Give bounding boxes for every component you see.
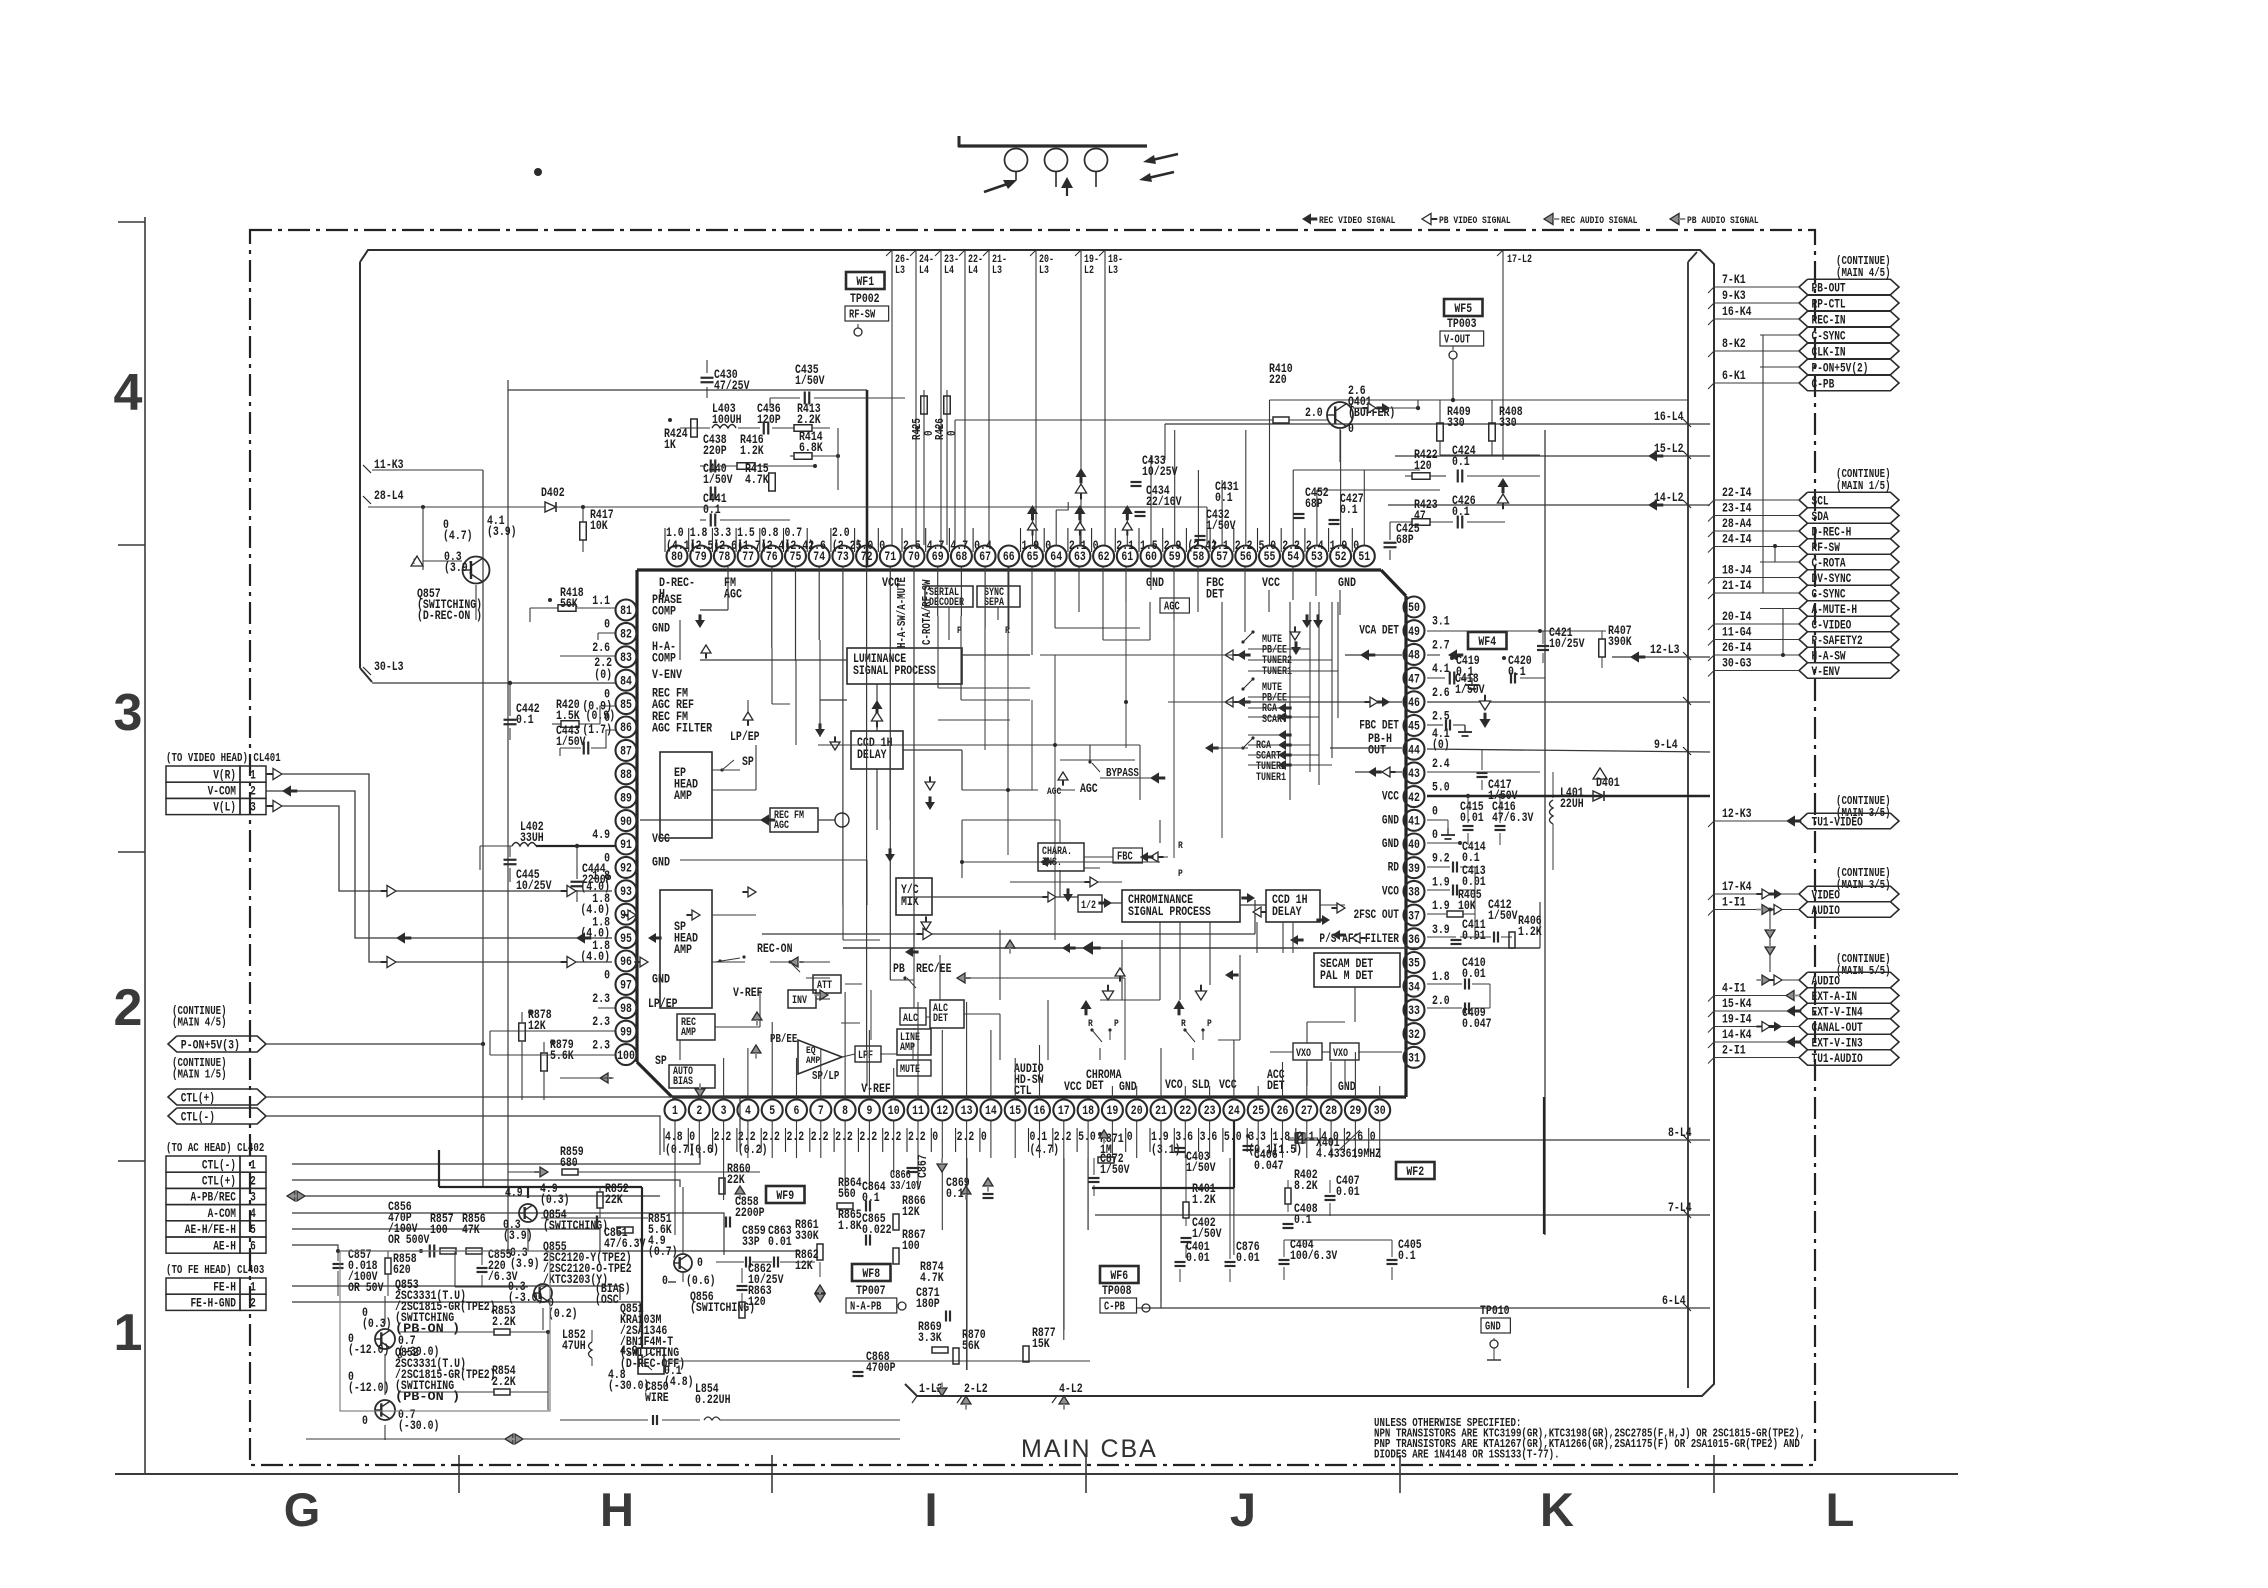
- svg-text:0.1: 0.1: [1398, 1248, 1416, 1263]
- svg-text:46: 46: [1408, 695, 1420, 710]
- svg-text:DELAY: DELAY: [857, 747, 887, 762]
- svg-text:EXT-V-IN4: EXT-V-IN4: [1812, 1005, 1864, 1019]
- svg-text:47/6.3V: 47/6.3V: [1492, 810, 1534, 825]
- svg-text:2.2: 2.2: [714, 1129, 732, 1144]
- svg-text:A-PB/REC: A-PB/REC: [191, 1191, 237, 1205]
- svg-text:0: 0: [932, 1129, 938, 1144]
- svg-text:4-L2: 4-L2: [1059, 1381, 1083, 1396]
- svg-text:SEPA: SEPA: [984, 597, 1004, 609]
- svg-text:68P: 68P: [1396, 532, 1414, 547]
- svg-text:5.0: 5.0: [1078, 1129, 1096, 1144]
- svg-text:48: 48: [1408, 648, 1420, 663]
- svg-text:7-L4: 7-L4: [1668, 1200, 1692, 1215]
- svg-text:2.2: 2.2: [1235, 538, 1253, 553]
- svg-text:(MAIN 3/5): (MAIN 3/5): [1836, 878, 1891, 892]
- svg-text:DV-SYNC: DV-SYNC: [1812, 572, 1852, 586]
- svg-text:66: 66: [1003, 549, 1015, 564]
- svg-text:DET: DET: [1086, 1078, 1104, 1093]
- svg-text:GND: GND: [652, 620, 670, 635]
- svg-text:ATT: ATT: [817, 980, 832, 992]
- svg-text:0.01: 0.01: [1460, 810, 1484, 825]
- svg-text:AGC: AGC: [774, 820, 789, 832]
- svg-text:26-I4: 26-I4: [1722, 640, 1752, 655]
- svg-text:4: 4: [114, 364, 143, 422]
- svg-text:1: 1: [250, 1280, 256, 1294]
- svg-text:42: 42: [1408, 790, 1420, 805]
- svg-text:TU1-VIDEO: TU1-VIDEO: [1812, 815, 1864, 829]
- svg-text:P: P: [1178, 868, 1183, 880]
- svg-text:2.5: 2.5: [903, 538, 921, 553]
- svg-text:L4: L4: [968, 265, 978, 277]
- svg-text:1.1: 1.1: [592, 593, 610, 608]
- svg-text:93: 93: [620, 884, 632, 899]
- svg-text:1: 1: [250, 1158, 256, 1172]
- svg-text:(0.2): (0.2): [548, 1306, 578, 1321]
- svg-text:36: 36: [1408, 932, 1420, 947]
- svg-text:22: 22: [1179, 1103, 1191, 1118]
- svg-text:7: 7: [818, 1103, 824, 1118]
- svg-text:PB-OUT: PB-OUT: [1812, 281, 1846, 295]
- svg-text:1: 1: [672, 1103, 678, 1118]
- svg-text:2.9: 2.9: [1164, 538, 1182, 553]
- svg-text:4.433619MHZ: 4.433619MHZ: [1316, 1146, 1381, 1161]
- svg-text:27: 27: [1301, 1103, 1313, 1118]
- svg-text:DELAY: DELAY: [1272, 904, 1302, 919]
- svg-text:2-L2: 2-L2: [964, 1381, 988, 1396]
- svg-text:22/16V: 22/16V: [1146, 494, 1182, 509]
- svg-text:2.3: 2.3: [592, 1014, 610, 1029]
- svg-text:GND: GND: [652, 854, 670, 869]
- svg-text:3.9: 3.9: [1432, 922, 1450, 937]
- svg-text:9: 9: [866, 1103, 872, 1118]
- svg-text:1/50V: 1/50V: [1488, 908, 1518, 923]
- svg-text:0.01: 0.01: [1186, 1250, 1210, 1265]
- svg-text:DET: DET: [1206, 587, 1224, 602]
- svg-text:0.1: 0.1: [1340, 502, 1358, 517]
- svg-text:120: 120: [1414, 458, 1432, 473]
- svg-text:REC/EE: REC/EE: [916, 961, 952, 976]
- svg-text:(MAIN 4/5): (MAIN 4/5): [1836, 266, 1891, 280]
- svg-text:43: 43: [1408, 766, 1420, 781]
- svg-text:0: 0: [879, 538, 885, 553]
- svg-text:1.2K: 1.2K: [1518, 924, 1542, 939]
- svg-text:R: R: [1181, 1018, 1186, 1030]
- svg-text:2200P: 2200P: [735, 1205, 765, 1220]
- svg-text:2.1: 2.1: [1069, 538, 1087, 553]
- svg-text:G: G: [284, 1483, 321, 1536]
- svg-text:5: 5: [250, 1223, 256, 1237]
- svg-text:0: 0: [1432, 827, 1438, 842]
- svg-text:3.6: 3.6: [1200, 1129, 1218, 1144]
- svg-text:33: 33: [1408, 1003, 1420, 1018]
- svg-text:47K: 47K: [462, 1222, 480, 1237]
- svg-text:1/50V: 1/50V: [1206, 518, 1236, 533]
- svg-text:99: 99: [620, 1024, 632, 1039]
- svg-text:47UH: 47UH: [562, 1338, 586, 1353]
- svg-text:I: I: [924, 1483, 937, 1536]
- svg-text:2200P: 2200P: [582, 872, 612, 887]
- svg-text:9-K3: 9-K3: [1722, 288, 1746, 303]
- svg-text:330: 330: [1447, 415, 1465, 430]
- svg-text:4.9: 4.9: [592, 827, 610, 842]
- svg-text:TP010: TP010: [1480, 1303, 1510, 1318]
- svg-text:2.2: 2.2: [1054, 1129, 1072, 1144]
- svg-text:24-I4: 24-I4: [1722, 532, 1752, 547]
- svg-text:(-12.0): (-12.0): [348, 1380, 389, 1395]
- svg-text:1/50V: 1/50V: [556, 734, 586, 749]
- svg-text:0: 0: [1348, 421, 1354, 436]
- svg-text:2.2: 2.2: [811, 1129, 829, 1144]
- svg-text:6: 6: [250, 1239, 256, 1253]
- svg-text:28: 28: [1325, 1103, 1337, 1118]
- svg-text:10/25V: 10/25V: [1142, 464, 1178, 479]
- svg-text:VCC: VCC: [1382, 790, 1399, 804]
- svg-text:22-I4: 22-I4: [1722, 485, 1752, 500]
- svg-text:(-30.0): (-30.0): [608, 1378, 649, 1393]
- svg-text:AMP: AMP: [674, 942, 692, 957]
- svg-text:2.6: 2.6: [808, 538, 826, 553]
- svg-text:15: 15: [1009, 1103, 1021, 1118]
- svg-text:0: 0: [604, 967, 610, 982]
- svg-text:100/6.3V: 100/6.3V: [1290, 1248, 1337, 1263]
- svg-text:MAIN CBA: MAIN CBA: [1021, 1435, 1158, 1463]
- svg-text:0: 0: [1353, 538, 1359, 553]
- svg-text:VCC: VCC: [1064, 1079, 1082, 1094]
- svg-text:1K: 1K: [664, 437, 676, 452]
- svg-text:0.01: 0.01: [1336, 1184, 1360, 1199]
- svg-text:AGC: AGC: [1164, 601, 1180, 614]
- svg-text:0.1: 0.1: [516, 712, 534, 727]
- svg-text:3.3K: 3.3K: [918, 1330, 942, 1345]
- svg-text:2.2: 2.2: [957, 1129, 975, 1144]
- svg-text:16: 16: [1034, 1103, 1046, 1118]
- svg-text:(OSC: (OSC: [595, 1292, 619, 1307]
- svg-text:LPF: LPF: [858, 1050, 873, 1062]
- svg-text:FE-H-GND: FE-H-GND: [191, 1297, 237, 1311]
- svg-text:SP/LP: SP/LP: [812, 1069, 839, 1083]
- svg-text:0.1: 0.1: [1215, 490, 1233, 505]
- svg-text:D-REC-H: D-REC-H: [1812, 525, 1852, 539]
- svg-text:(4.7): (4.7): [1030, 1142, 1060, 1157]
- svg-text:15-L2: 15-L2: [1654, 441, 1684, 456]
- svg-text:18-J4: 18-J4: [1722, 563, 1752, 578]
- svg-text:CLK-IN: CLK-IN: [1812, 345, 1846, 359]
- svg-text:120: 120: [748, 1294, 766, 1309]
- svg-text:P-ON+5V(2): P-ON+5V(2): [1812, 361, 1869, 375]
- svg-text:(SWITCHING): (SWITCHING): [543, 1218, 608, 1233]
- svg-text:AMP: AMP: [674, 788, 692, 803]
- svg-text:VIDEO: VIDEO: [1812, 888, 1841, 902]
- svg-text:17: 17: [1058, 1103, 1070, 1118]
- svg-text:(0): (0): [594, 667, 612, 682]
- svg-text:V-ENV: V-ENV: [652, 667, 682, 682]
- svg-text:OUT: OUT: [1368, 743, 1386, 758]
- svg-text:97: 97: [620, 978, 632, 993]
- svg-text:7-K1: 7-K1: [1722, 272, 1746, 287]
- svg-text:56K: 56K: [560, 596, 578, 611]
- svg-text:16-L4: 16-L4: [1654, 409, 1684, 424]
- svg-text:GND: GND: [652, 971, 670, 986]
- svg-text:2.1: 2.1: [1116, 538, 1134, 553]
- svg-text:5.0: 5.0: [1259, 538, 1277, 553]
- svg-text:3.6: 3.6: [1175, 1129, 1193, 1144]
- svg-text:(0.6): (0.6): [689, 1142, 719, 1157]
- svg-text:2.5: 2.5: [1432, 709, 1450, 724]
- svg-text:2.2: 2.2: [787, 1129, 805, 1144]
- svg-text:CANAL-OUT: CANAL-OUT: [1812, 1021, 1864, 1035]
- svg-text:47/25V: 47/25V: [714, 378, 750, 393]
- svg-text:0: 0: [1045, 538, 1051, 553]
- svg-text:REC AUDIO SIGNAL: REC AUDIO SIGNAL: [1561, 215, 1637, 227]
- svg-text:(0.3): (0.3): [540, 1192, 570, 1207]
- svg-text:89: 89: [620, 790, 632, 805]
- svg-text:1.8: 1.8: [1432, 969, 1450, 984]
- svg-text:A-COM: A-COM: [208, 1207, 236, 1221]
- svg-text:L3: L3: [895, 265, 905, 277]
- svg-text:ALC: ALC: [903, 1013, 918, 1025]
- svg-text:44: 44: [1408, 742, 1420, 757]
- svg-text:RF-SW: RF-SW: [849, 309, 875, 322]
- svg-text:(0.2): (0.2): [738, 1142, 768, 1157]
- svg-text:9.2: 9.2: [1432, 851, 1450, 866]
- svg-text:37: 37: [1408, 908, 1420, 923]
- svg-text:CTL(-): CTL(-): [181, 1110, 215, 1124]
- svg-text:SIGNAL PROCESS: SIGNAL PROCESS: [853, 663, 936, 678]
- svg-text:(0): (0): [1432, 737, 1450, 752]
- svg-text:SP: SP: [742, 754, 754, 769]
- svg-text:14-K4: 14-K4: [1722, 1027, 1752, 1042]
- svg-text:WF4: WF4: [1478, 634, 1496, 649]
- svg-text:2.3: 2.3: [592, 1038, 610, 1053]
- svg-text:P-SAFETY2: P-SAFETY2: [1812, 634, 1863, 648]
- svg-text:L4: L4: [944, 265, 954, 277]
- svg-text:100: 100: [617, 1048, 635, 1063]
- svg-text:0: 0: [981, 1129, 987, 1144]
- svg-text:12: 12: [936, 1103, 948, 1118]
- svg-text:D401: D401: [1596, 775, 1620, 790]
- svg-text:0.01: 0.01: [1236, 1250, 1260, 1265]
- svg-text:25: 25: [1252, 1103, 1264, 1118]
- svg-text:1/50V: 1/50V: [1100, 1162, 1130, 1177]
- svg-text:14: 14: [985, 1103, 997, 1118]
- svg-text:SIGNAL PROCESS: SIGNAL PROCESS: [1128, 904, 1211, 919]
- svg-text:0.01: 0.01: [768, 1234, 792, 1249]
- svg-text:(MAIN 5/5): (MAIN 5/5): [1836, 964, 1891, 978]
- svg-text:20-I4: 20-I4: [1722, 609, 1752, 624]
- svg-text:56K: 56K: [962, 1338, 980, 1353]
- svg-text:50: 50: [1408, 600, 1420, 615]
- svg-text:81: 81: [620, 603, 632, 618]
- svg-text:(TO FE HEAD) CL403: (TO FE HEAD) CL403: [166, 1263, 264, 1277]
- svg-text:N-A-PB: N-A-PB: [850, 1301, 881, 1314]
- svg-text:82: 82: [620, 627, 632, 642]
- svg-text:1.2K: 1.2K: [740, 443, 764, 458]
- svg-text:18: 18: [1082, 1103, 1094, 1118]
- svg-text:FE-H: FE-H: [213, 1280, 236, 1294]
- svg-text:24: 24: [1228, 1103, 1240, 1118]
- svg-text:J: J: [1230, 1483, 1256, 1536]
- svg-text:D402: D402: [541, 485, 565, 500]
- svg-text:2: 2: [250, 1297, 256, 1311]
- svg-text:P: P: [1207, 1018, 1212, 1030]
- svg-text:30-L3: 30-L3: [374, 659, 404, 674]
- svg-text:30: 30: [1374, 1103, 1386, 1118]
- svg-text:1/50V: 1/50V: [1455, 682, 1485, 697]
- svg-text:13: 13: [961, 1103, 973, 1118]
- svg-text:2.1: 2.1: [1297, 1129, 1315, 1144]
- svg-text:V-REF: V-REF: [861, 1081, 891, 1096]
- svg-text:INV: INV: [792, 995, 807, 1007]
- svg-text:11: 11: [912, 1103, 924, 1118]
- svg-text:92: 92: [620, 861, 632, 876]
- svg-text:TP008: TP008: [1102, 1283, 1132, 1298]
- svg-text:4.1: 4.1: [1432, 661, 1450, 676]
- svg-text:49: 49: [1408, 624, 1420, 639]
- svg-text:3: 3: [721, 1103, 727, 1118]
- svg-text:3: 3: [250, 1191, 256, 1205]
- svg-text:1/50V: 1/50V: [703, 472, 733, 487]
- svg-text:C867: C867: [915, 1154, 930, 1178]
- svg-text:91: 91: [620, 837, 632, 852]
- svg-text:RF-SW: RF-SW: [1812, 541, 1841, 555]
- svg-text:1: 1: [114, 1304, 143, 1362]
- svg-text:4.7: 4.7: [927, 538, 945, 553]
- svg-text:4.9: 4.9: [620, 1343, 638, 1358]
- svg-text:14-L2: 14-L2: [1654, 490, 1684, 505]
- svg-text:12K: 12K: [902, 1204, 920, 1219]
- svg-text:22K: 22K: [605, 1192, 623, 1207]
- svg-text:2.6: 2.6: [1432, 685, 1450, 700]
- svg-text:EXT-V-IN3: EXT-V-IN3: [1812, 1036, 1863, 1050]
- svg-text:1: 1: [250, 768, 256, 782]
- svg-text:1.9: 1.9: [1432, 874, 1450, 889]
- svg-text:62: 62: [1098, 549, 1110, 564]
- svg-text:AGC FILTER: AGC FILTER: [652, 721, 712, 736]
- svg-text:TU1-AUDIO: TU1-AUDIO: [1812, 1052, 1864, 1066]
- svg-text:1.2K: 1.2K: [1192, 1192, 1216, 1207]
- svg-text:CTL(-): CTL(-): [202, 1158, 236, 1172]
- svg-text:2-I1: 2-I1: [1722, 1043, 1746, 1058]
- svg-text:83: 83: [620, 650, 632, 665]
- svg-text:330K: 330K: [795, 1228, 819, 1243]
- svg-text:180P: 180P: [916, 1296, 940, 1311]
- svg-text:P: P: [1114, 1018, 1119, 1030]
- svg-text:SLD: SLD: [1192, 1077, 1210, 1092]
- svg-text:0.01: 0.01: [1462, 928, 1486, 943]
- svg-text:15-K4: 15-K4: [1722, 996, 1752, 1011]
- svg-text:680: 680: [560, 1155, 578, 1170]
- svg-text:L3: L3: [1108, 265, 1118, 277]
- svg-text:WF6: WF6: [1110, 1268, 1128, 1283]
- svg-text:0.1: 0.1: [1294, 1212, 1312, 1227]
- svg-text:6-K1: 6-K1: [1722, 368, 1746, 383]
- svg-text:(MAIN 1/5): (MAIN 1/5): [1836, 479, 1891, 493]
- svg-text:0.047: 0.047: [1462, 1016, 1492, 1031]
- svg-text:COMP: COMP: [652, 650, 676, 665]
- svg-text:2.2: 2.2: [908, 1129, 926, 1144]
- svg-text:0: 0: [945, 431, 959, 437]
- svg-text:(3.1): (3.1): [1151, 1142, 1181, 1157]
- svg-text:90: 90: [620, 814, 632, 829]
- svg-text:2.2K: 2.2K: [492, 1314, 516, 1329]
- svg-text:3.1: 3.1: [1432, 614, 1450, 629]
- svg-text:0: 0: [1093, 538, 1099, 553]
- svg-text:39: 39: [1408, 861, 1420, 876]
- svg-text:H: H: [600, 1483, 634, 1536]
- svg-text:8-L4: 8-L4: [1668, 1125, 1692, 1140]
- svg-text:(MAIN 4/5): (MAIN 4/5): [172, 1016, 227, 1030]
- svg-text:2.3: 2.3: [592, 991, 610, 1006]
- svg-text:PAL M DET: PAL M DET: [1320, 968, 1373, 983]
- svg-text:34: 34: [1408, 979, 1420, 994]
- svg-text:PB/EE: PB/EE: [770, 1032, 797, 1046]
- svg-text:1/50V: 1/50V: [1186, 1160, 1216, 1175]
- svg-text:VCA DET: VCA DET: [1359, 624, 1399, 638]
- svg-text:84: 84: [620, 673, 632, 688]
- svg-text:L: L: [1826, 1483, 1855, 1536]
- svg-text:23: 23: [1204, 1103, 1216, 1118]
- svg-text:REC-ON: REC-ON: [757, 941, 793, 956]
- svg-text:R: R: [1088, 1018, 1093, 1030]
- svg-text:22K: 22K: [727, 1172, 745, 1187]
- svg-text:LP/EP: LP/EP: [730, 729, 760, 744]
- svg-text:K: K: [1540, 1483, 1574, 1536]
- svg-text:5.0: 5.0: [1432, 780, 1450, 795]
- svg-text:0.22UH: 0.22UH: [695, 1392, 731, 1407]
- svg-text:28-A4: 28-A4: [1722, 516, 1752, 531]
- svg-text:GND: GND: [1338, 1079, 1356, 1094]
- svg-text:23-I4: 23-I4: [1722, 501, 1752, 516]
- svg-text:COMP: COMP: [652, 604, 676, 619]
- svg-text:0: 0: [1432, 803, 1438, 818]
- svg-text:33P: 33P: [742, 1234, 760, 1249]
- svg-text:10: 10: [888, 1103, 900, 1118]
- svg-text:6-L4: 6-L4: [1662, 1293, 1686, 1308]
- svg-text:100: 100: [430, 1222, 448, 1237]
- svg-text:45: 45: [1408, 719, 1420, 734]
- svg-text:(0.7): (0.7): [648, 1244, 678, 1259]
- svg-text:C-VIDEO: C-VIDEO: [1812, 618, 1852, 632]
- svg-text:0: 0: [662, 1273, 668, 1288]
- svg-text:C-PB: C-PB: [1812, 377, 1835, 391]
- svg-text:10K: 10K: [590, 518, 608, 533]
- svg-text:0: 0: [1370, 1129, 1376, 1144]
- svg-text:86: 86: [620, 720, 632, 735]
- svg-text:0: 0: [697, 1255, 703, 1270]
- svg-text:1.9: 1.9: [1330, 538, 1348, 553]
- svg-text:1.8K: 1.8K: [838, 1218, 862, 1233]
- svg-text:AMP: AMP: [806, 1055, 820, 1067]
- svg-text:WF1: WF1: [856, 274, 874, 289]
- svg-text:GND: GND: [1382, 837, 1399, 851]
- svg-text:51: 51: [1358, 549, 1370, 564]
- svg-text:2.2: 2.2: [859, 1129, 877, 1144]
- svg-text:WF8: WF8: [862, 1266, 880, 1281]
- svg-text:AGC: AGC: [724, 587, 742, 602]
- svg-text:98: 98: [620, 1001, 632, 1016]
- svg-text:4.7K: 4.7K: [745, 472, 769, 487]
- svg-text:1.5: 1.5: [1140, 538, 1158, 553]
- svg-text:1-I1: 1-I1: [1722, 895, 1746, 910]
- svg-text:!: !: [412, 558, 416, 567]
- svg-text:0: 0: [1127, 1129, 1133, 1144]
- svg-text:47: 47: [1408, 671, 1420, 686]
- svg-text:68P: 68P: [1305, 496, 1323, 511]
- svg-text:TP007: TP007: [856, 1283, 886, 1298]
- svg-text:30-G3: 30-G3: [1722, 656, 1752, 671]
- svg-text:220: 220: [1269, 372, 1287, 387]
- svg-text:AE-H: AE-H: [213, 1239, 236, 1253]
